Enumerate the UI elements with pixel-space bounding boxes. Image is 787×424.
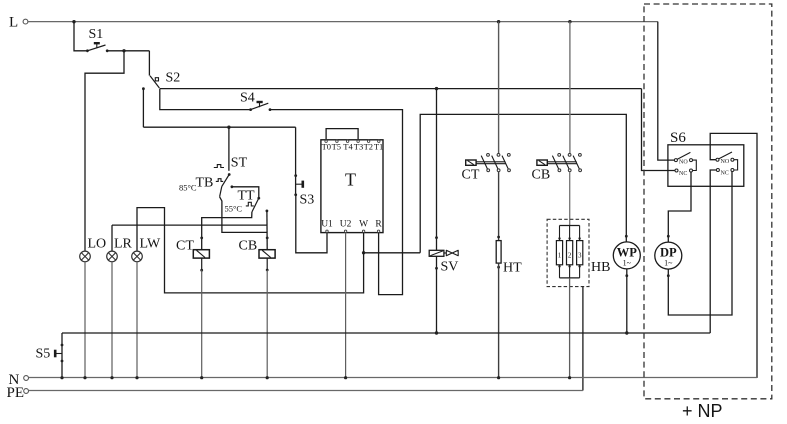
node S1 output junction [122,49,125,52]
svg-text:CB: CB [532,168,551,183]
wire N to S6 right common [710,133,757,378]
pin W [359,219,368,232]
pin U2 [340,219,352,232]
wire S2 to S4 bus [160,89,251,110]
svg-text:PE: PE [7,385,25,401]
node SV feed junction [435,87,438,90]
svg-text:T4: T4 [343,141,353,151]
svg-text:U1: U1 [321,219,333,229]
wire S6 left to drain pump DP [668,172,691,242]
pin T4 [343,140,353,151]
wire S2 left throw down [142,89,144,128]
svg-text:NO: NO [721,159,730,165]
wire HB chassis to PE [582,287,584,391]
heater block HB [547,219,610,286]
wire CB coil to N [266,258,269,378]
node CB feed junction [568,20,571,23]
svg-text:TB: TB [196,176,214,191]
switch S4 [240,91,271,112]
terminal L [9,15,28,31]
svg-text:LO: LO [88,236,107,251]
wire PE bus [29,390,583,392]
S6 left contact [674,152,696,177]
svg-text:W: W [359,219,368,229]
wire S6 right NC to pump bus [710,170,716,333]
svg-text:S3: S3 [300,193,315,208]
pin U1 [321,219,333,232]
pin T2 [364,140,373,151]
lamp LW [132,236,161,261]
wire W bus to wash pump [420,114,626,252]
wire U2 to N [345,233,347,378]
node LR on N [110,376,113,379]
lamp LO [80,236,106,261]
svg-text:3: 3 [578,252,582,260]
pin T5 [332,140,341,151]
svg-text:CT: CT [176,239,194,254]
node L-S1 junction [72,20,75,23]
svg-text:T3: T3 [354,141,363,151]
pin T0 [322,140,331,151]
switch block S6 [668,130,744,186]
node TT right throw [266,210,269,213]
svg-text:T2: T2 [364,141,373,151]
thermostat TB 85°C [179,176,267,233]
svg-text:S4: S4 [240,91,255,106]
motor WP wash pump [613,235,640,269]
svg-text:ST: ST [231,156,248,171]
node W junction [362,251,365,254]
node HB on N [568,376,571,379]
wire L to S1 [74,22,87,51]
relay coil CT [176,237,209,259]
wire S4 bus to R [270,110,403,295]
motor DP drain pump [655,235,682,277]
wire S3 to U1 [296,195,327,253]
svg-text:T0: T0 [322,141,331,151]
svg-text:1: 1 [558,252,562,260]
dashed enclosure NP module [644,4,772,399]
wire TT throw to coil CB [266,211,268,250]
svg-text:HT: HT [503,261,522,276]
wire CT coil to N [200,258,203,378]
wire W terminal branch [364,252,421,254]
svg-text:SV: SV [441,260,459,275]
svg-text:U2: U2 [340,219,352,229]
wire SV to pump bus [435,256,438,333]
switch S1 [86,27,109,52]
wire heater HT feed [498,172,500,241]
wire CB contact feed [569,22,571,155]
wire pump return bus [62,332,710,334]
relay coil CB [239,237,276,259]
wire TT to coil CT [202,212,252,250]
svg-text:1~: 1~ [664,259,673,268]
node SV on bus [435,331,438,334]
svg-text:T5: T5 [332,141,341,151]
wire N bus [29,377,757,379]
S6 right contact [716,152,738,177]
wire lamp LR line [112,224,267,226]
heater HT [496,236,522,276]
wire LW lamp to N [136,262,138,378]
wire L bus [28,21,658,23]
thermal switch ST [214,127,248,186]
node CT coil on N [200,376,203,379]
wire T0-T3 bracket [326,129,358,140]
node ST branch junction [227,126,230,129]
svg-text:NO: NO [679,160,688,166]
wire WP to pump bus [625,269,628,333]
wire HB to N [569,278,571,378]
svg-text:S6: S6 [670,130,686,146]
terminal N [9,372,29,388]
svg-text:T1: T1 [374,141,383,151]
node CB coil on N [266,376,269,379]
svg-text:CT: CT [462,168,480,183]
wire CT contact feed [498,22,500,156]
svg-text:TT: TT [238,189,256,204]
svg-text:S2: S2 [166,71,181,86]
node WP on bus [625,331,628,334]
wire SV feed [436,89,438,251]
pin T3 [354,140,363,151]
node LO on N [83,376,86,379]
node S5 on N [60,376,63,379]
svg-text:T: T [345,170,356,190]
wire S2 bus to S6 NC [642,89,675,171]
svg-text:S5: S5 [36,347,51,362]
wire LR drop [111,225,113,251]
svg-text:CB: CB [239,239,258,254]
svg-text:L: L [9,15,18,31]
solenoid valve SV [429,236,458,274]
switch S3 [294,127,314,207]
node HT on N [497,376,500,379]
svg-text:HB: HB [591,260,610,275]
svg-text:85°C: 85°C [179,183,197,193]
svg-text:2: 2 [568,252,572,260]
svg-text:1~: 1~ [623,259,632,268]
svg-text:DP: DP [660,246,677,260]
timer T box [321,140,383,233]
contact CT [462,154,511,183]
switch S5 [36,333,64,378]
svg-text:S1: S1 [89,27,104,42]
thermostat TT 55°C [225,185,261,213]
svg-text:LW: LW [140,236,162,251]
node LW on N [135,376,138,379]
svg-text:WP: WP [617,246,638,260]
svg-text:+ NP: + NP [682,401,723,421]
pin R [375,219,382,232]
node U2 on N [344,376,347,379]
svg-text:NC: NC [679,171,687,177]
wire heater HB feed [569,172,571,226]
wire S1 output [107,50,149,52]
contact CB [532,154,582,183]
wire to lamp LO [85,51,124,251]
wire S2 bus [160,88,642,90]
pin T1 [374,140,383,151]
wire L to S6 common [658,22,675,161]
wire S6 right to DP bottom [668,172,732,316]
wire W terminal down [137,208,364,293]
terminal PE [7,385,29,401]
wire LO lamp to N [84,262,86,378]
svg-text:NC: NC [721,171,729,177]
wire thermostat feed line [143,126,295,128]
svg-text:R: R [375,219,382,229]
wire HT to N [498,263,500,377]
wire LR lamp to N [111,262,113,378]
node CT feed junction [497,20,500,23]
svg-text:55°C: 55°C [225,204,243,214]
svg-text:LR: LR [114,236,133,251]
wire S1 to S2 [148,51,150,76]
lamp LR [107,236,133,261]
switch S2 [142,71,180,91]
